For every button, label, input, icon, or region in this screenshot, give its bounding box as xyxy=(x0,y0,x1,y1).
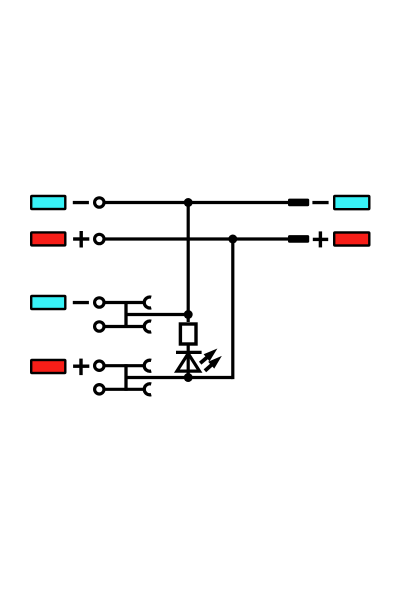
wire row1 horizontal xyxy=(105,201,288,204)
terminal circle group4 lower xyxy=(95,385,104,394)
wire resistor to LED xyxy=(187,344,190,378)
spring contact arc group4 upper xyxy=(144,360,151,371)
terminal circle row1 left xyxy=(95,198,104,207)
LED cathode bar xyxy=(176,351,202,354)
wire group3 lower xyxy=(105,325,144,328)
spring contact arc group3 upper xyxy=(144,297,151,308)
terminal marker red left row2 xyxy=(30,231,67,246)
junction node resistor top xyxy=(184,310,193,319)
bus bar group3 xyxy=(124,301,127,328)
plus label row2 right xyxy=(313,231,328,247)
LED emission arrow 1 xyxy=(197,345,220,367)
plus label row2 left xyxy=(73,231,89,248)
wire vertical minus branch xyxy=(187,203,190,323)
spring contact arc group3 lower xyxy=(144,321,151,332)
spring contact arc group4 lower xyxy=(144,384,151,395)
minus label group3 xyxy=(73,301,89,304)
terminal marker red left group4 xyxy=(30,359,67,374)
wire group3 upper xyxy=(105,301,144,304)
LED triangle xyxy=(177,354,200,372)
terminal circle group3 lower xyxy=(95,322,104,331)
wire group3 tap to LED branch xyxy=(126,313,188,316)
terminal marker cyan left group3 xyxy=(30,295,67,310)
LED emission arrow 2 xyxy=(202,352,225,374)
feed-through contact row1 (black bar) xyxy=(288,199,309,207)
wire group4 tap to LED bottom xyxy=(126,376,188,379)
wire row2 horizontal xyxy=(105,237,288,240)
junction node row1 xyxy=(184,198,193,207)
bus bar group4 xyxy=(124,364,127,391)
resistor xyxy=(180,324,196,344)
plus label group4 xyxy=(73,359,89,376)
minus label row1 left xyxy=(73,201,89,204)
terminal circle group3 upper xyxy=(95,298,104,307)
terminal marker cyan left row1 xyxy=(30,195,67,210)
wire group4 lower xyxy=(105,388,144,391)
minus label row1 right xyxy=(312,201,328,204)
feed-through contact row2 (black bar) xyxy=(288,235,309,243)
terminal marker red right row2 xyxy=(333,231,371,246)
terminal circle row2 left xyxy=(95,234,104,243)
junction node LED bottom xyxy=(184,373,193,382)
wire vertical plus riser xyxy=(231,239,233,378)
junction node row2 xyxy=(228,235,237,244)
wire group4 upper xyxy=(105,364,144,367)
terminal circle group4 upper xyxy=(95,361,104,370)
terminal marker cyan right row1 xyxy=(333,195,371,211)
wire bottom to plus riser xyxy=(188,376,233,379)
